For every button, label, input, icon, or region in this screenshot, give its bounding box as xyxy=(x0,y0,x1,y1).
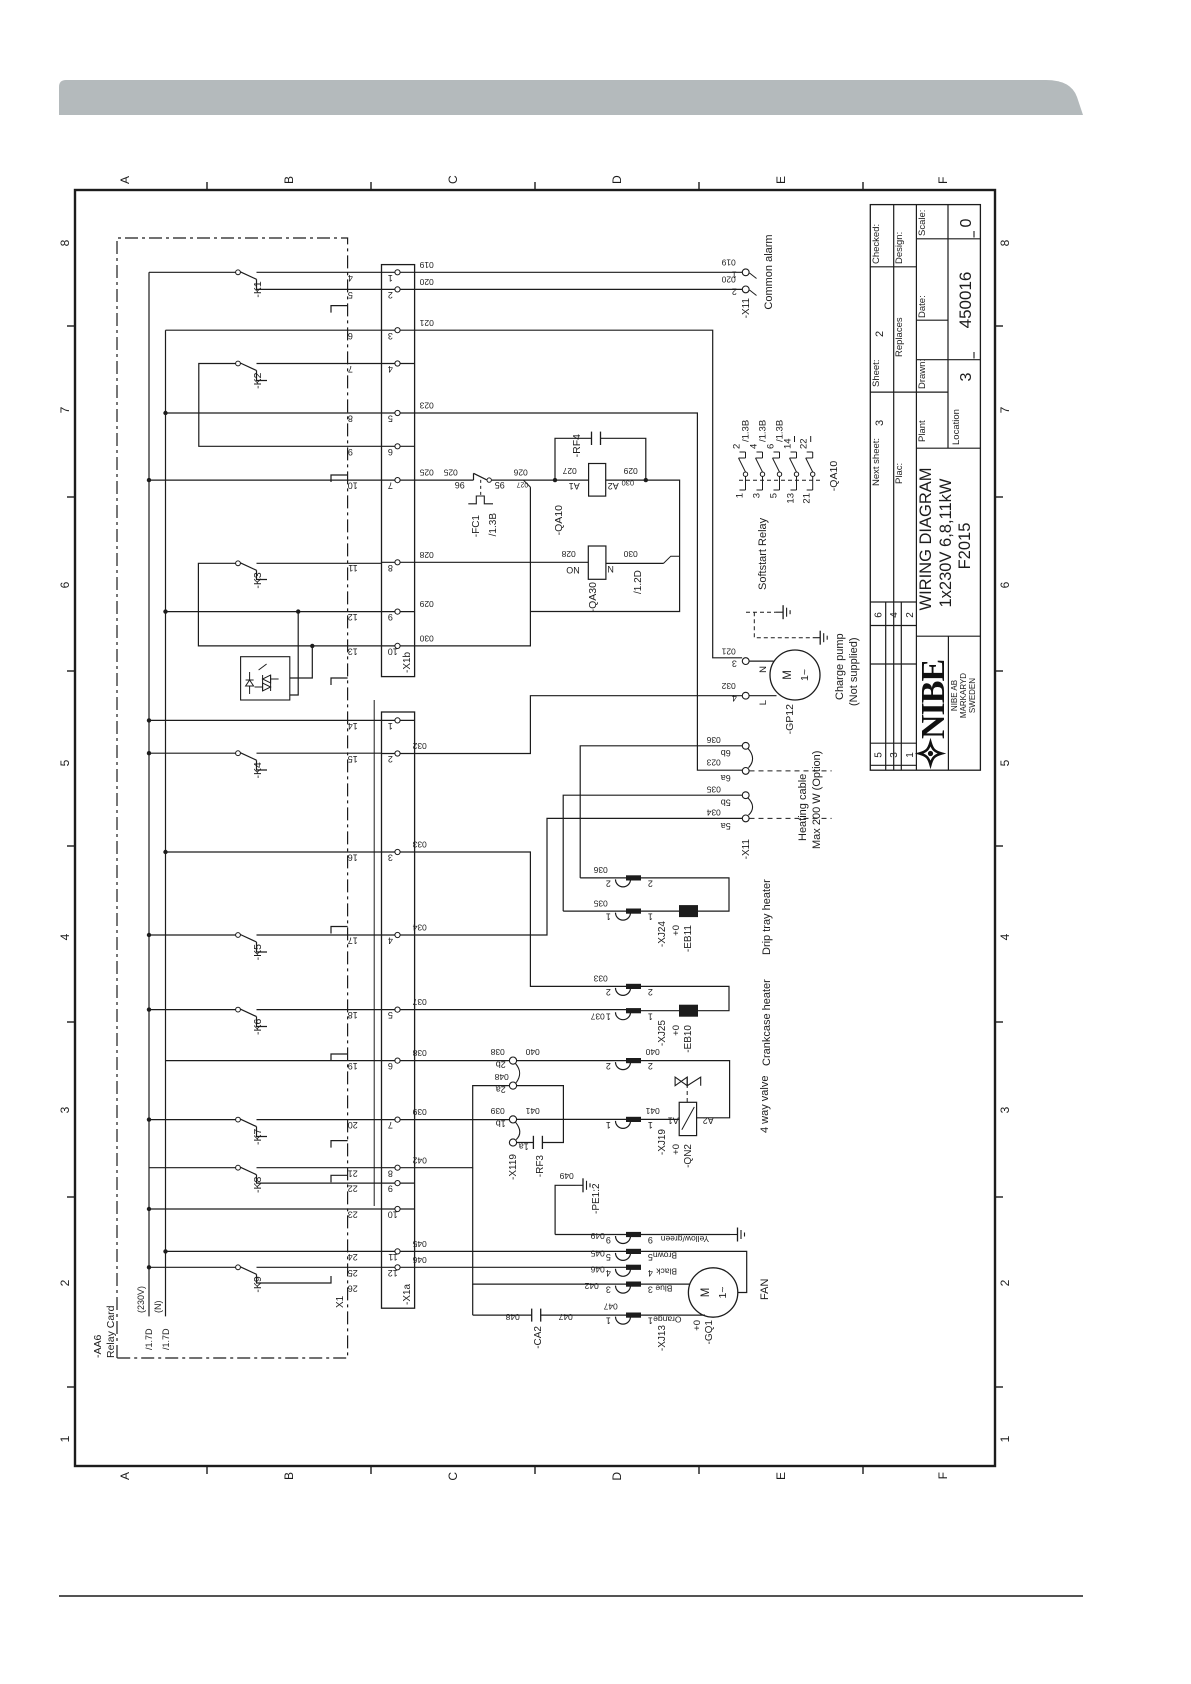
svg-text:/1.7D: /1.7D xyxy=(144,1328,154,1350)
terminal -X11:3 xyxy=(742,658,749,665)
svg-text:019: 019 xyxy=(721,258,735,268)
svg-text:M: M xyxy=(700,1288,712,1298)
svg-text:1~: 1~ xyxy=(799,669,811,681)
terminal -X11:2 xyxy=(742,286,749,293)
fan motor -GQ1 xyxy=(688,1268,737,1317)
svg-text:-RF3: -RF3 xyxy=(535,1155,546,1178)
svg-text:/1.3B: /1.3B xyxy=(741,420,752,442)
svg-text:4: 4 xyxy=(749,444,760,449)
svg-text:019: 019 xyxy=(419,260,433,270)
fan run capacitor -CA2 on orange wire xyxy=(472,1284,474,1315)
svg-text:1: 1 xyxy=(606,1120,611,1130)
svg-text:028: 028 xyxy=(419,550,433,560)
svg-text:027: 027 xyxy=(562,466,576,476)
connector -XJ13 pin 9 xyxy=(616,1236,631,1244)
svg-text:038: 038 xyxy=(490,1047,504,1057)
title block xyxy=(870,205,980,771)
softstart contact 1-2 xyxy=(740,489,746,491)
svg-text:25: 25 xyxy=(348,1268,358,1278)
unused relay terminal stubs at card edge xyxy=(331,306,348,313)
svg-text:Black: Black xyxy=(655,1267,677,1277)
svg-text:Sheet:: Sheet: xyxy=(871,360,882,387)
svg-text:-CA2: -CA2 xyxy=(533,1326,544,1349)
svg-text:D: D xyxy=(610,175,624,184)
terminal pin 6 xyxy=(382,1060,415,1062)
svg-text:9: 9 xyxy=(348,447,353,457)
X1 terminal group line above strip xyxy=(373,700,375,1206)
title block cell lines xyxy=(870,266,916,268)
svg-text:Common alarm: Common alarm xyxy=(763,234,775,309)
X119 2b-2a link xyxy=(516,1064,520,1083)
softstart chassis grounds (dashed) xyxy=(746,611,776,613)
interference filter -RF4 (capacitor parallel to QA10) xyxy=(644,478,648,482)
heater element -EB11 xyxy=(641,910,679,912)
wire 039 X1a:7 to X119:1b xyxy=(415,1119,510,1121)
svg-text:/1.3B: /1.3B xyxy=(488,513,499,537)
svg-text:5: 5 xyxy=(348,290,353,300)
svg-text:032: 032 xyxy=(721,681,735,691)
svg-text:039: 039 xyxy=(490,1106,504,1116)
softstart contact 5-6 xyxy=(774,489,780,491)
grid row ticks xyxy=(206,1466,208,1474)
wire 034 X1a:4 to X11:5a xyxy=(415,818,743,935)
svg-text:030: 030 xyxy=(622,479,635,488)
K5 jog stub xyxy=(257,942,268,952)
svg-text:-PE1:2: -PE1:2 xyxy=(591,1183,602,1214)
svg-text:038: 038 xyxy=(412,1048,426,1058)
wire 037 X1a:5 to XJ25:1 xyxy=(415,1009,626,1011)
svg-text:-AA6: -AA6 xyxy=(92,1334,104,1358)
svg-text:5: 5 xyxy=(998,759,1012,766)
terminal pin 1 xyxy=(382,719,415,721)
svg-text:025: 025 xyxy=(443,468,457,478)
svg-text:2: 2 xyxy=(648,1061,653,1071)
svg-text:5: 5 xyxy=(58,759,72,766)
svg-text:030: 030 xyxy=(623,549,637,559)
revision table xyxy=(885,602,887,770)
svg-text:3: 3 xyxy=(889,752,900,758)
valve coil -QN2 xyxy=(641,1118,679,1120)
relay contact -K5 xyxy=(149,934,236,936)
svg-text:18: 18 xyxy=(348,1010,358,1020)
svg-text:2b: 2b xyxy=(496,1060,506,1070)
svg-text:5: 5 xyxy=(606,1252,611,1262)
svg-text:10: 10 xyxy=(388,647,398,657)
NIBE logo block xyxy=(916,635,980,637)
svg-text:2: 2 xyxy=(874,331,886,337)
svg-text:6: 6 xyxy=(58,581,72,588)
svg-text:1: 1 xyxy=(648,1011,653,1021)
heater element -EB10 xyxy=(641,1010,679,1012)
terminal pin 9 xyxy=(382,611,415,613)
svg-text:-XJ19: -XJ19 xyxy=(657,1129,668,1156)
svg-text:24: 24 xyxy=(348,1252,358,1262)
svg-text:9: 9 xyxy=(606,1235,611,1245)
svg-text:-QA10: -QA10 xyxy=(828,461,840,492)
svg-text:Orange: Orange xyxy=(653,1314,682,1324)
svg-text:Relay Card: Relay Card xyxy=(105,1305,117,1358)
svg-text:3: 3 xyxy=(388,853,393,863)
svg-text:2: 2 xyxy=(606,1061,611,1071)
svg-text:-EB10: -EB10 xyxy=(683,1025,694,1053)
svg-text:2: 2 xyxy=(606,987,611,997)
wire 049 to XJ13:9 xyxy=(555,1234,626,1236)
svg-text:2: 2 xyxy=(905,612,916,618)
svg-text:037: 037 xyxy=(412,997,426,1007)
svg-text:5: 5 xyxy=(769,493,780,498)
svg-text:3: 3 xyxy=(58,1106,72,1113)
svg-text:3: 3 xyxy=(732,659,737,669)
svg-text:-X11: -X11 xyxy=(741,298,752,319)
svg-text:049: 049 xyxy=(590,1231,604,1241)
svg-text:12: 12 xyxy=(388,1268,398,1278)
relay card -AA6 dash-dot boundary xyxy=(117,238,348,1358)
svg-text:6: 6 xyxy=(348,331,353,341)
connector -X119:2a xyxy=(509,1082,516,1089)
terminal pin 3 xyxy=(382,329,415,331)
connector -XJ24 pin 2 xyxy=(616,879,631,887)
connector -X119:1b xyxy=(509,1116,516,1123)
K9 jog to card edge stub xyxy=(257,1274,332,1283)
svg-text:8: 8 xyxy=(998,239,1012,246)
svg-text:13: 13 xyxy=(786,493,797,504)
protective earth -PE1:2 xyxy=(555,1185,575,1234)
svg-text:6b: 6b xyxy=(721,748,731,758)
coil -QA30 xyxy=(588,546,606,579)
svg-text:N: N xyxy=(758,666,769,673)
svg-text:WIRING DIAGRAM: WIRING DIAGRAM xyxy=(917,468,935,611)
svg-text:A1: A1 xyxy=(668,1116,679,1126)
svg-text:L: L xyxy=(758,700,769,705)
svg-text:033: 033 xyxy=(593,974,607,984)
svg-text:023: 023 xyxy=(706,758,720,768)
brown wire loop into motor xyxy=(641,1251,747,1292)
svg-text:023: 023 xyxy=(419,401,433,411)
interference capacitor -RF3 xyxy=(517,1142,534,1144)
svg-text:1: 1 xyxy=(648,1316,653,1326)
svg-text:027: 027 xyxy=(517,481,529,488)
svg-text:B: B xyxy=(282,1472,296,1480)
svg-text:Date:: Date: xyxy=(917,295,928,318)
coil -QA10 xyxy=(589,464,606,497)
wire 041 X119:1b to XJ19:1 xyxy=(517,1118,626,1120)
svg-text:+0: +0 xyxy=(671,1025,682,1036)
svg-text:Max 200 W (Option): Max 200 W (Option) xyxy=(811,751,823,849)
relay contact -K7 xyxy=(149,1119,236,1121)
svg-text:C: C xyxy=(446,1472,460,1481)
svg-text:1b: 1b xyxy=(496,1119,506,1129)
svg-text:-K3: -K3 xyxy=(252,572,264,589)
svg-text:041: 041 xyxy=(645,1106,659,1116)
svg-text:/1.2D: /1.2D xyxy=(633,570,644,594)
wire 023 X1b:5 to X11:6a xyxy=(415,413,743,770)
svg-text:2: 2 xyxy=(388,754,393,764)
svg-text:1: 1 xyxy=(735,493,746,498)
svg-text:-X119: -X119 xyxy=(508,1154,519,1180)
svg-text:MARKARYD: MARKARYD xyxy=(959,673,968,718)
svg-text:5a: 5a xyxy=(721,821,731,831)
svg-text:040: 040 xyxy=(645,1047,659,1057)
svg-text:2: 2 xyxy=(732,287,737,297)
softstart relay contact block -QA10 xyxy=(739,479,820,481)
svg-text:035: 035 xyxy=(593,899,607,909)
svg-text:19: 19 xyxy=(348,1061,358,1071)
svg-text:7: 7 xyxy=(998,406,1012,413)
svg-text:-GQ1: -GQ1 xyxy=(704,1320,715,1345)
svg-text:045: 045 xyxy=(590,1249,604,1259)
wire 042 X1a:8 to X119:2a xyxy=(415,1086,510,1168)
svg-text:A1: A1 xyxy=(569,481,580,491)
wire 020 X1b:2 to X11:2 xyxy=(415,288,743,290)
X11 5a-5b link xyxy=(748,798,753,815)
svg-text:6: 6 xyxy=(766,444,777,449)
svg-text:9: 9 xyxy=(648,1235,653,1245)
svg-text:12: 12 xyxy=(348,612,358,622)
QN2 return to XJ19:2 xyxy=(641,1061,730,1118)
svg-text:E: E xyxy=(774,1472,788,1480)
svg-text:Drip tray heater: Drip tray heater xyxy=(761,879,773,955)
svg-text:2: 2 xyxy=(998,1279,1012,1286)
svg-text:21: 21 xyxy=(802,493,813,504)
svg-text:5: 5 xyxy=(388,414,393,424)
svg-text:1: 1 xyxy=(905,752,916,758)
terminal pin 10 xyxy=(382,1208,415,1210)
svg-text:7: 7 xyxy=(388,481,393,491)
svg-text:3: 3 xyxy=(752,493,763,498)
wire 045 X1a:11 to XJ13:5 xyxy=(415,1250,626,1252)
svg-text:1: 1 xyxy=(388,721,393,731)
solid state relay junction dots xyxy=(310,644,314,648)
svg-text:11: 11 xyxy=(388,1252,397,1262)
svg-text:1: 1 xyxy=(998,1435,1012,1442)
connector -X119:2b xyxy=(509,1057,516,1064)
svg-text:7: 7 xyxy=(58,406,72,413)
svg-text:A2: A2 xyxy=(703,1116,714,1126)
terminal -X11:4 xyxy=(742,692,749,699)
wire 028 X1b:8 to QA30 xyxy=(415,561,589,563)
svg-text:3: 3 xyxy=(998,1106,1012,1113)
svg-text:3: 3 xyxy=(606,1285,611,1295)
svg-text:Softstart Relay: Softstart Relay xyxy=(757,517,769,590)
svg-text:11: 11 xyxy=(348,563,357,573)
svg-text:-QN2: -QN2 xyxy=(683,1144,694,1168)
terminal strip -X1a xyxy=(382,712,415,1308)
breaker contact -FC1 96/95 xyxy=(473,473,475,480)
connector -XJ13 pin 4 xyxy=(616,1269,631,1277)
FC1 thermal element xyxy=(480,478,482,495)
svg-text:045: 045 xyxy=(412,1239,426,1249)
svg-text:1: 1 xyxy=(648,912,653,922)
svg-text:6: 6 xyxy=(388,447,393,457)
svg-text:037: 037 xyxy=(590,1012,604,1022)
connector -XJ13 pin 5 xyxy=(616,1253,631,1261)
svg-text:021: 021 xyxy=(721,647,735,657)
svg-text:6: 6 xyxy=(388,1061,393,1071)
svg-text:025: 025 xyxy=(419,468,433,478)
svg-text:/1.7D: /1.7D xyxy=(161,1328,171,1350)
svg-text:6a: 6a xyxy=(721,773,731,783)
relay contact -K9 xyxy=(149,1266,236,1268)
svg-text:+0: +0 xyxy=(671,1144,682,1155)
svg-text:-EB11: -EB11 xyxy=(683,925,694,952)
svg-text:042: 042 xyxy=(412,1155,426,1165)
svg-text:M: M xyxy=(782,670,794,680)
svg-text:22: 22 xyxy=(348,1184,358,1194)
svg-text:10: 10 xyxy=(348,481,358,491)
svg-text:15: 15 xyxy=(348,754,358,764)
svg-text:041: 041 xyxy=(525,1106,539,1116)
svg-text:-X11: -X11 xyxy=(741,839,752,860)
svg-text:046: 046 xyxy=(590,1265,604,1275)
svg-text:20: 20 xyxy=(348,1120,358,1130)
terminal pin 5 xyxy=(382,412,415,414)
svg-text:1: 1 xyxy=(648,1120,653,1130)
svg-text:4: 4 xyxy=(648,1268,653,1278)
svg-text:3: 3 xyxy=(958,372,975,381)
svg-text:8: 8 xyxy=(58,239,72,246)
svg-text:E: E xyxy=(774,176,788,184)
relay contact -K8 xyxy=(149,1167,236,1169)
svg-text:NIBE AB: NIBE AB xyxy=(950,680,959,711)
wire 033 X1a:3 to XJ25:2 xyxy=(415,852,626,986)
svg-text:1: 1 xyxy=(606,1011,611,1021)
svg-text:96: 96 xyxy=(455,480,465,490)
svg-text:046: 046 xyxy=(412,1255,426,1265)
relay contact -K2 (fed from X1b:6 loop) xyxy=(199,364,382,447)
charge pump motor -GP12 xyxy=(770,650,820,700)
bus junction dots xyxy=(147,478,151,482)
svg-text:Next sheet:: Next sheet: xyxy=(871,438,882,486)
svg-text:036: 036 xyxy=(593,865,607,875)
svg-text:X1: X1 xyxy=(335,1295,346,1308)
svg-text:SWEDEN: SWEDEN xyxy=(968,678,977,713)
svg-text:-X1b: -X1b xyxy=(402,651,413,673)
svg-text:8: 8 xyxy=(348,414,353,424)
svg-text:13: 13 xyxy=(348,647,358,657)
svg-text:7: 7 xyxy=(388,1120,393,1130)
terminal -X11:6b xyxy=(742,742,749,749)
QA30/QA10 coil return wires xyxy=(664,556,680,563)
blue wire into motor xyxy=(641,1283,690,1285)
svg-text:0: 0 xyxy=(958,218,975,227)
svg-text:F: F xyxy=(936,1472,950,1479)
bus feed columns to strip pins xyxy=(149,479,382,481)
svg-text:-GP12: -GP12 xyxy=(784,704,796,735)
wire 036 from XJ24:2 to X11:6b xyxy=(580,746,742,878)
svg-text:17: 17 xyxy=(348,936,358,946)
svg-text:3: 3 xyxy=(874,420,886,426)
terminal pin 2 xyxy=(382,288,415,290)
svg-text:Location: Location xyxy=(951,409,962,445)
terminal pin 2 xyxy=(382,753,415,755)
svg-text:-K1: -K1 xyxy=(252,281,264,298)
svg-text:N: N xyxy=(607,564,614,574)
svg-text:21: 21 xyxy=(348,1168,358,1178)
softstart contact 21-22 xyxy=(807,489,813,491)
connector -XJ19 pin 1 xyxy=(616,1121,631,1128)
4-way valve symbol xyxy=(675,1077,687,1086)
svg-text:C: C xyxy=(446,175,460,184)
solid state relay (triac/optocoupler) on relay card xyxy=(241,657,290,700)
heating cable option dashed stubs xyxy=(750,770,832,772)
svg-text:3: 3 xyxy=(648,1285,653,1295)
svg-text:9: 9 xyxy=(388,612,393,622)
svg-text:23: 23 xyxy=(348,1210,358,1220)
svg-text:Brown: Brown xyxy=(653,1251,677,1261)
terminal -X11:5b xyxy=(742,792,749,799)
svg-text:Drawn:: Drawn: xyxy=(917,359,928,389)
svg-text:22: 22 xyxy=(799,438,810,449)
svg-text:-K8: -K8 xyxy=(252,1177,264,1194)
svg-text:028: 028 xyxy=(561,549,575,559)
svg-text:4: 4 xyxy=(889,612,900,618)
svg-text:16: 16 xyxy=(348,853,358,863)
svg-text:-FC1: -FC1 xyxy=(471,515,482,538)
svg-text:Checked:: Checked: xyxy=(871,224,882,264)
svg-text:1x230V 6,8,11kW: 1x230V 6,8,11kW xyxy=(937,478,955,607)
svg-text:Crankcase heater: Crankcase heater xyxy=(761,979,773,1066)
svg-text:042: 042 xyxy=(584,1281,598,1291)
svg-text:4: 4 xyxy=(388,364,393,374)
svg-text:Blue: Blue xyxy=(655,1283,672,1293)
svg-text:2: 2 xyxy=(732,444,743,449)
terminal pin 4 xyxy=(382,363,415,365)
svg-text:-QA30: -QA30 xyxy=(587,582,599,613)
svg-text:Scale:: Scale: xyxy=(917,210,928,236)
svg-text:NO: NO xyxy=(566,565,580,575)
svg-text:(N): (N) xyxy=(153,1301,163,1314)
svg-text:030: 030 xyxy=(419,634,433,644)
relay contact -K4 xyxy=(149,752,236,754)
svg-text:040: 040 xyxy=(525,1047,539,1057)
svg-text:1: 1 xyxy=(606,912,611,922)
svg-text:-XJ13: -XJ13 xyxy=(657,1325,668,1352)
svg-text:26: 26 xyxy=(348,1284,358,1294)
svg-text:-QA10: -QA10 xyxy=(553,505,565,536)
terminal -X11:1 xyxy=(742,269,749,276)
svg-text:049: 049 xyxy=(559,1171,573,1181)
svg-text:047: 047 xyxy=(558,1312,572,1322)
K6 jog stub xyxy=(257,1017,268,1027)
wire 046 X1a:12 to XJ13:4 xyxy=(415,1266,626,1268)
terminal pin 4 xyxy=(382,934,415,936)
terminal strip -X1b xyxy=(382,265,415,677)
terminal -X11:6a xyxy=(742,768,749,775)
junction dot FC1 output node xyxy=(553,478,557,482)
svg-text:Plant: Plant xyxy=(917,420,928,442)
svg-text:048: 048 xyxy=(505,1312,519,1322)
SSR output wires to X1b:9 / X1b:10 columns xyxy=(290,612,298,695)
connector -XJ13 pin 1 xyxy=(616,1317,631,1325)
terminal pin 1 xyxy=(382,271,415,273)
relay contact -K1 xyxy=(149,271,236,273)
wire 019 X1b:1 to X11:1 xyxy=(415,271,743,273)
svg-text:450016: 450016 xyxy=(956,272,975,329)
terminal pin 6 xyxy=(382,445,415,447)
connector -XJ19 pin 2 xyxy=(616,1062,631,1070)
svg-text:D: D xyxy=(610,1472,624,1481)
svg-text:048: 048 xyxy=(494,1072,508,1082)
drawing frame border xyxy=(75,190,995,1466)
svg-text:A: A xyxy=(118,1472,132,1480)
terminal pin 7 xyxy=(382,1119,415,1121)
svg-text:2: 2 xyxy=(58,1279,72,1286)
svg-text:4: 4 xyxy=(348,273,353,283)
svg-text:5b: 5b xyxy=(721,798,731,808)
svg-text:3: 3 xyxy=(388,331,393,341)
svg-text:+0: +0 xyxy=(692,1320,703,1331)
svg-text:B: B xyxy=(282,176,296,184)
